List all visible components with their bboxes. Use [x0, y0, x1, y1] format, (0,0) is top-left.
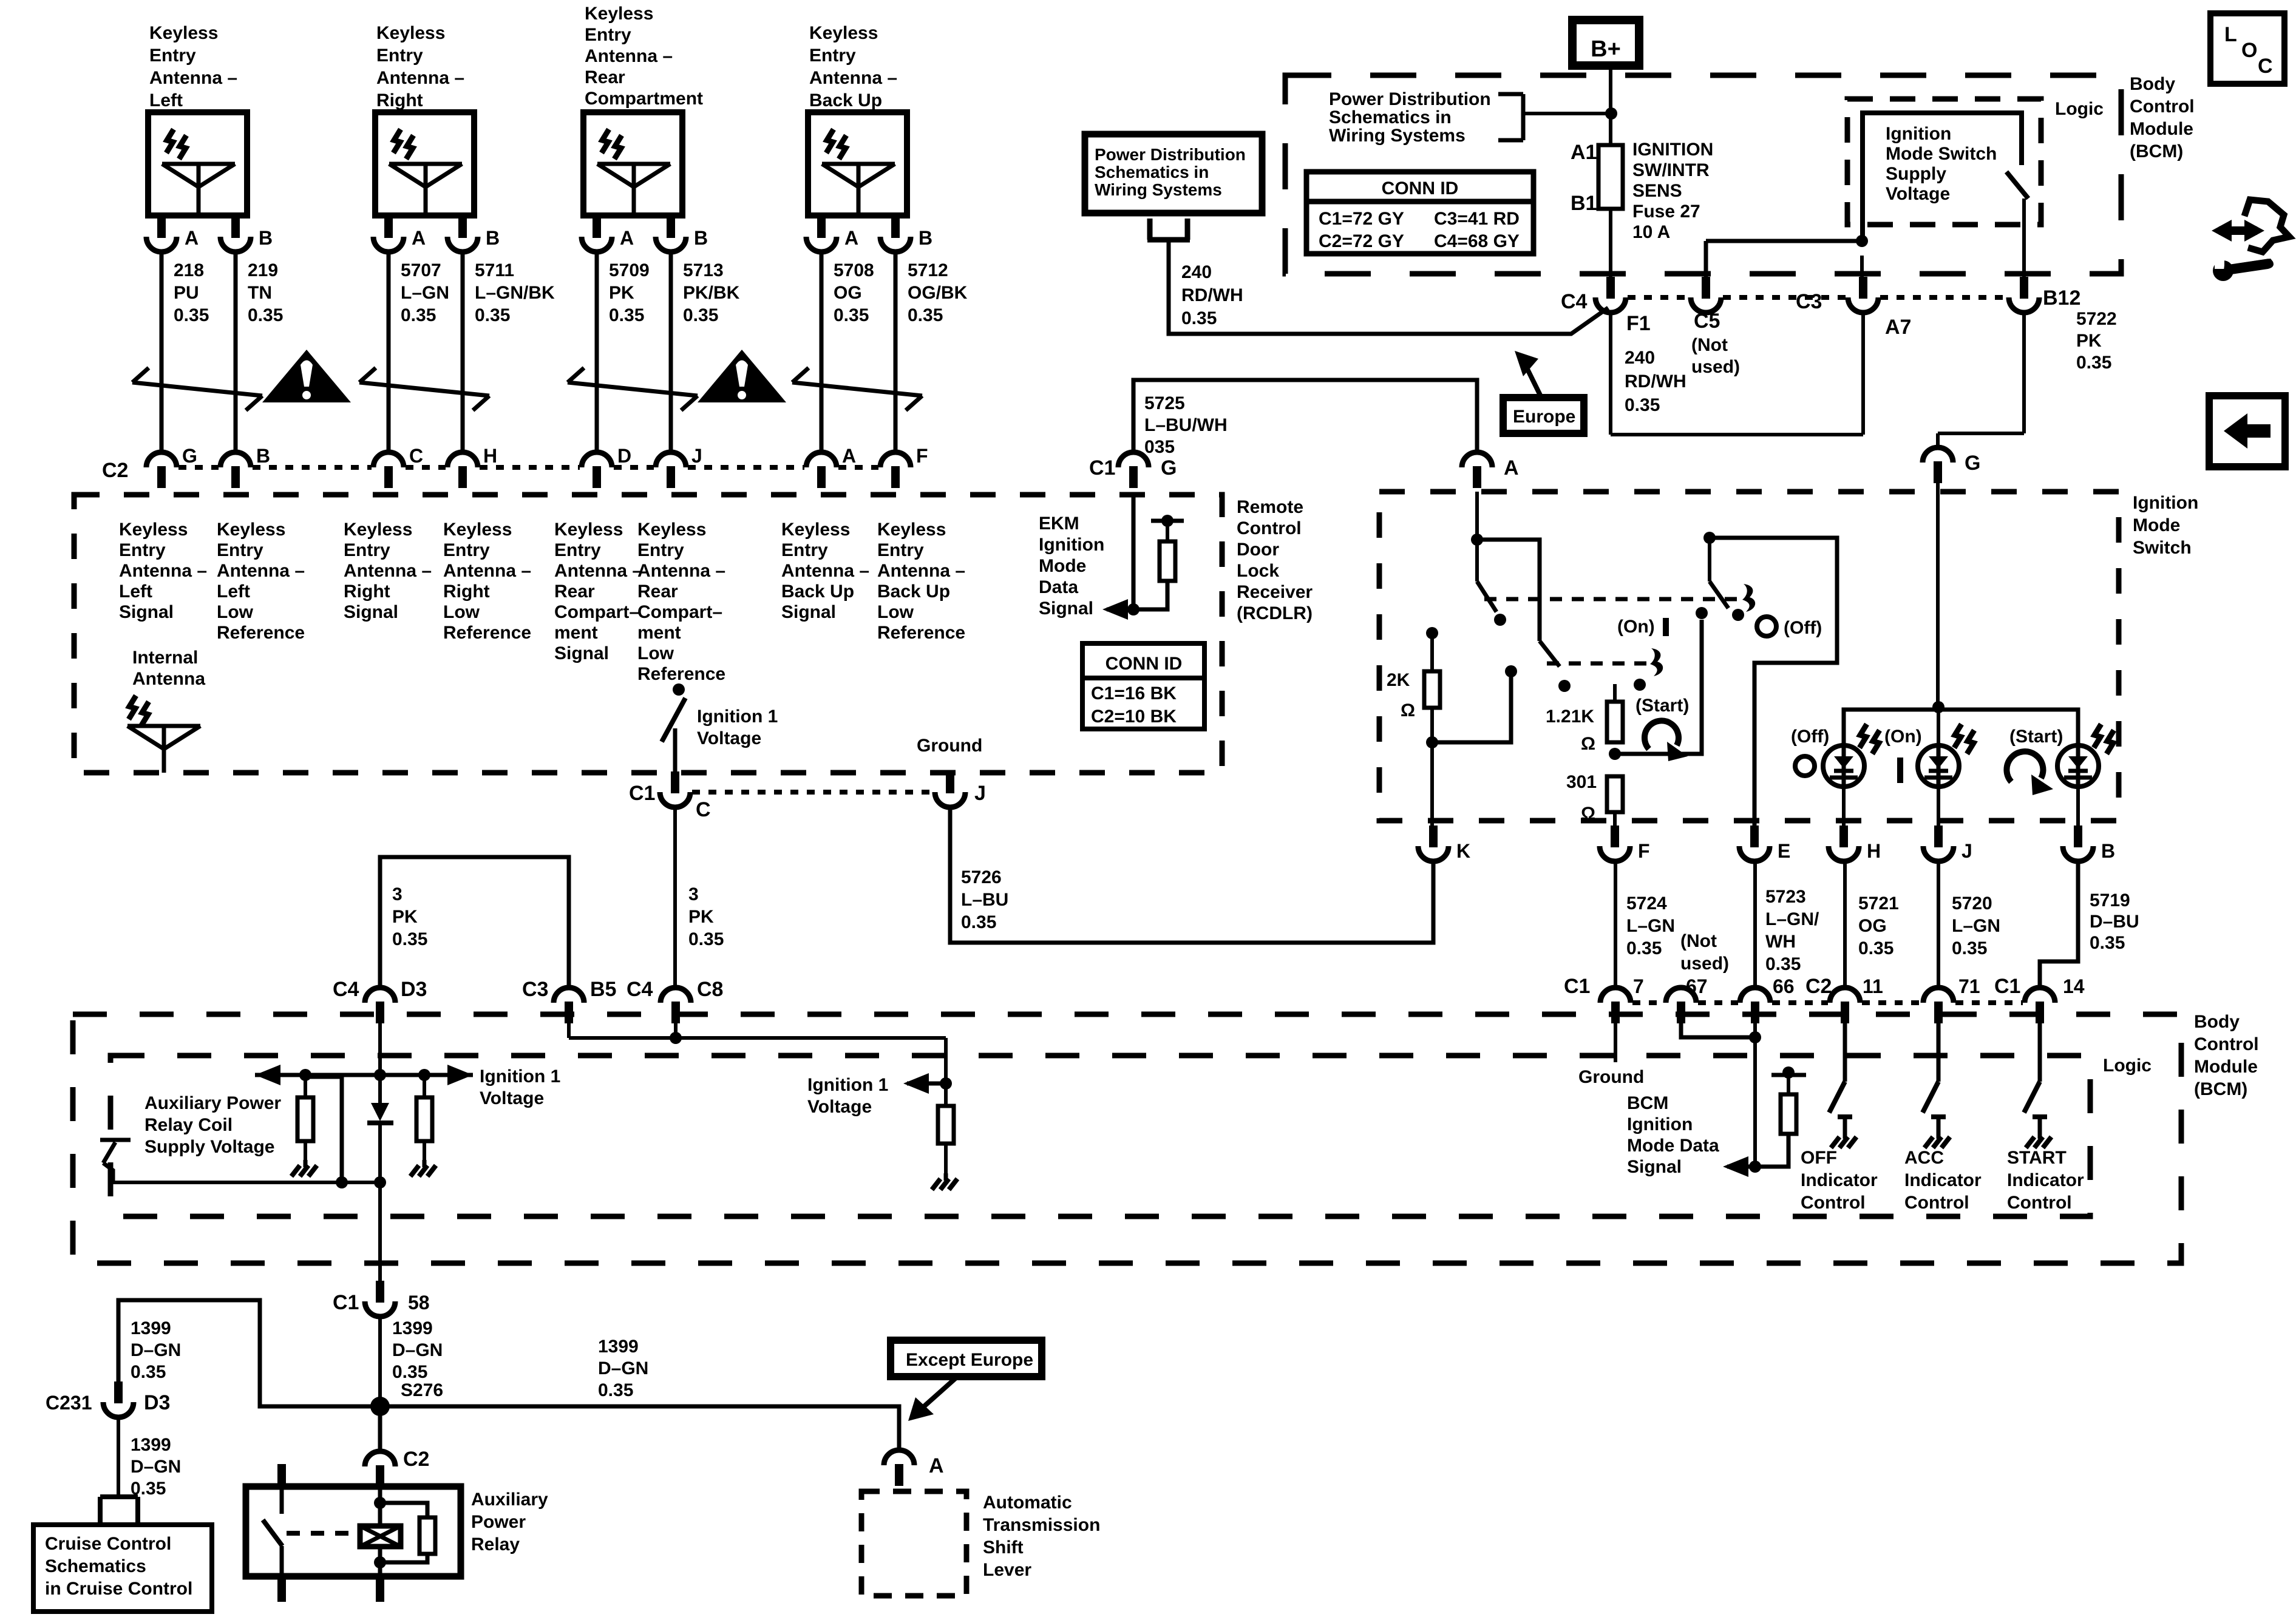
- RCDLR pin function text 5: [554, 520, 642, 663]
- svg-text:Ignition: Ignition: [2133, 493, 2198, 513]
- svg-text:CONN ID: CONN ID: [1382, 178, 1459, 198]
- svg-text:J: J: [1961, 840, 1972, 862]
- relay mechanical link: [287, 1531, 358, 1536]
- svg-text:J: J: [974, 782, 986, 805]
- label C2 (row2): [1805, 975, 1832, 998]
- ground middle: [932, 1173, 957, 1190]
- auxiliary power relay coil supply voltage text: [144, 1093, 281, 1157]
- svg-text:0.35: 0.35: [1765, 954, 1801, 974]
- svg-text:Body: Body: [2130, 74, 2175, 94]
- svg-text:Entry: Entry: [585, 25, 631, 45]
- svg-text:10 A: 10 A: [1632, 222, 1670, 242]
- IMS pin J: [1923, 825, 1972, 862]
- svg-text:Europe: Europe: [1513, 407, 1575, 427]
- label C2 (RCDLR connector): [102, 459, 128, 482]
- connector A (shift lever): [884, 1450, 944, 1486]
- svg-text:L–GN/: L–GN/: [1765, 909, 1819, 929]
- wire 5719 D-BU: [2040, 861, 2139, 988]
- connector pin B of antenna 4: [880, 216, 932, 252]
- pull-up resistor left: [297, 1075, 313, 1160]
- svg-text:0.35: 0.35: [609, 305, 644, 325]
- svg-text:0.35: 0.35: [961, 912, 996, 932]
- BCM ignition mode data signal text: [1627, 1093, 1719, 1177]
- svg-text:L: L: [2224, 23, 2237, 46]
- svg-text:A: A: [620, 227, 634, 249]
- ACC indicator control text: [1904, 1148, 1982, 1213]
- svg-text:C5: C5: [1694, 310, 1720, 333]
- ignition 1 voltage arrow (middle): [807, 1073, 952, 1117]
- BCM upper dashed box: [1285, 75, 2121, 274]
- svg-text:Antenna –: Antenna –: [877, 561, 965, 581]
- svg-text:Rear: Rear: [585, 67, 625, 87]
- not-used 67 link: [1681, 1020, 1761, 1043]
- warning triangle 1: [262, 350, 351, 402]
- svg-text:Rear: Rear: [554, 581, 595, 602]
- keyless entry antenna 4 label: [809, 23, 897, 110]
- svg-text:Ignition: Ignition: [1627, 1114, 1693, 1134]
- svg-text:0.35: 0.35: [683, 305, 718, 325]
- svg-text:Keyless: Keyless: [344, 520, 412, 540]
- back arrow box: [2209, 396, 2285, 467]
- svg-text:Keyless: Keyless: [119, 520, 188, 540]
- svg-text:H: H: [483, 445, 497, 467]
- row2 dotted line: [1632, 1000, 1664, 1005]
- wire 5722 PK (B12 to G): [1938, 309, 2117, 448]
- svg-text:(Off): (Off): [1784, 618, 1822, 638]
- wire main to C1-58: [378, 1182, 382, 1287]
- svg-text:RD/WH: RD/WH: [1181, 285, 1243, 305]
- BCM pin B5: [554, 978, 616, 1023]
- svg-text:Supply: Supply: [1886, 164, 1946, 184]
- svg-text:3: 3: [688, 884, 699, 904]
- start position text: [1635, 696, 1689, 716]
- start rotate arrow: [1645, 720, 1688, 761]
- label C1 (EKM connector): [1089, 456, 1115, 480]
- svg-text:Entry: Entry: [443, 540, 490, 560]
- EKM data wire with arrow: [1102, 495, 1140, 620]
- svg-text:(BCM): (BCM): [2130, 141, 2183, 161]
- svg-text:Entry: Entry: [781, 540, 828, 560]
- ground left: [291, 1160, 317, 1176]
- svg-text:Compartment: Compartment: [585, 89, 703, 109]
- RCDLR pin function text 1: [119, 520, 207, 622]
- svg-text:Ground: Ground: [917, 736, 982, 756]
- ignition 1 voltage text (BCM): [480, 1066, 560, 1108]
- connector D3 (C231): [103, 1381, 170, 1417]
- splice S276: [370, 1380, 443, 1416]
- svg-text:Left: Left: [149, 90, 183, 110]
- switch 1 (run contact): [1477, 540, 1506, 626]
- svg-text:B+: B+: [1591, 36, 1621, 62]
- svg-text:0.35: 0.35: [392, 929, 427, 949]
- svg-text:Shift: Shift: [983, 1537, 1024, 1558]
- svg-text:Indicator: Indicator: [2007, 1170, 2084, 1190]
- IMS pin A: [1462, 452, 1519, 488]
- svg-text:Control: Control: [1904, 1193, 1969, 1213]
- upper row dotted line 3: [1880, 295, 2007, 300]
- svg-text:SW/INTR: SW/INTR: [1632, 160, 1710, 180]
- svg-text:C3: C3: [522, 978, 548, 1001]
- wire 219 TN: [236, 252, 283, 453]
- svg-text:Right: Right: [376, 90, 423, 110]
- svg-text:C2: C2: [1805, 975, 1832, 998]
- connector row dotted line: [838, 465, 878, 470]
- svg-text:Low: Low: [877, 602, 914, 622]
- wire 301 to F: [1613, 812, 1617, 835]
- svg-text:Lever: Lever: [983, 1560, 1031, 1580]
- wire 1399 D-GN (to cruise): [118, 1417, 181, 1499]
- auxiliary power relay box: [246, 1486, 461, 1576]
- svg-text:D3: D3: [401, 978, 427, 1001]
- row2 dotted line: [1862, 1000, 1921, 1005]
- IMS pin K: [1418, 825, 1470, 862]
- svg-text:Signal: Signal: [1039, 598, 1093, 619]
- connector C2 (relay): [365, 1451, 395, 1487]
- svg-text:Antenna –: Antenna –: [344, 561, 432, 581]
- svg-text:0.35: 0.35: [1952, 938, 1987, 958]
- RCDLR pin function text 4: [443, 520, 531, 643]
- connector row dotted line: [178, 465, 219, 470]
- RCDLR pin C: [660, 771, 711, 821]
- cruise control reference box: [33, 1525, 212, 1612]
- svg-text:A: A: [185, 227, 199, 249]
- svg-text:1399: 1399: [598, 1337, 639, 1357]
- RCDLR CONN ID table: [1082, 643, 1204, 729]
- svg-text:0.35: 0.35: [598, 1380, 633, 1400]
- svg-text:14: 14: [2063, 975, 2085, 997]
- svg-text:(On): (On): [1617, 617, 1655, 637]
- svg-text:Transmission: Transmission: [983, 1515, 1100, 1535]
- svg-text:B: B: [486, 227, 500, 249]
- connector C5 not used: [1691, 241, 1740, 377]
- svg-text:7: 7: [1633, 975, 1644, 997]
- svg-text:Wiring Systems: Wiring Systems: [1095, 180, 1222, 199]
- RCDLR pin G: [146, 445, 197, 488]
- svg-text:0.35: 0.35: [2076, 353, 2111, 373]
- RCDLR pin F: [880, 445, 928, 488]
- mechanical link 1: [1484, 584, 1755, 612]
- svg-text:B: B: [694, 227, 708, 249]
- svg-text:L–GN: L–GN: [1952, 916, 2000, 936]
- wire 5720 L-GN: [1938, 861, 2000, 988]
- svg-text:Signal: Signal: [119, 602, 174, 622]
- svg-text:Auxiliary: Auxiliary: [471, 1490, 548, 1510]
- svg-text:used): used): [1680, 954, 1729, 974]
- svg-text:Remote: Remote: [1237, 497, 1303, 517]
- IMS pin F: [1600, 825, 1650, 862]
- svg-text:TN: TN: [248, 283, 272, 303]
- except europe callout: [891, 1340, 1042, 1421]
- ignition 1 voltage rail with arrows: [255, 1065, 473, 1085]
- LED off/H: [1823, 724, 1880, 835]
- svg-text:Mode Switch: Mode Switch: [1886, 144, 1997, 164]
- svg-text:ment: ment: [637, 623, 681, 643]
- svg-text:(Start): (Start): [1635, 696, 1689, 716]
- europe callout: [1503, 351, 1584, 433]
- wire 5711 L–GN/BK: [463, 252, 555, 453]
- BCM pin F1: [1595, 277, 1651, 335]
- svg-text:Power Distribution: Power Distribution: [1095, 145, 1246, 164]
- BCM pin 71: [1923, 975, 1980, 1023]
- svg-text:(Start): (Start): [2009, 727, 2063, 747]
- svg-text:C2: C2: [403, 1448, 429, 1471]
- svg-text:C4: C4: [627, 978, 653, 1001]
- wire C5 to A7 node: [1706, 235, 1868, 247]
- switch 3 feed: [1703, 532, 1716, 581]
- svg-text:C8: C8: [697, 978, 723, 1001]
- svg-text:Mode: Mode: [1039, 556, 1086, 576]
- connector pin A of antenna 2: [373, 216, 426, 252]
- svg-text:Ignition 1: Ignition 1: [807, 1075, 888, 1095]
- svg-text:5707: 5707: [401, 260, 441, 280]
- fuse 27: [1571, 140, 1713, 242]
- svg-text:Antenna –: Antenna –: [119, 561, 207, 581]
- connector pin B of antenna 2: [447, 216, 500, 252]
- svg-text:C1: C1: [1564, 975, 1590, 998]
- svg-text:B5: B5: [590, 978, 616, 1001]
- svg-text:Keyless: Keyless: [376, 23, 445, 43]
- ignition mode switch dashed box: [1379, 492, 2119, 821]
- svg-text:L–BU: L–BU: [961, 890, 1008, 910]
- relay coil wiring: [374, 1481, 435, 1602]
- svg-text:G: G: [1161, 456, 1177, 480]
- svg-text:C1: C1: [629, 782, 655, 805]
- connector row dotted line: [480, 465, 580, 470]
- LED start/B: [2057, 724, 2114, 835]
- svg-text:Ω: Ω: [1581, 804, 1595, 824]
- RCDLR pin J (ground): [935, 771, 986, 807]
- START indicator switch: [2024, 1020, 2051, 1148]
- svg-text:Voltage: Voltage: [1886, 184, 1950, 204]
- label C4 (F1): [1561, 290, 1588, 313]
- svg-text:Signal: Signal: [1627, 1157, 1682, 1177]
- svg-text:Entry: Entry: [149, 46, 196, 66]
- RCDLR pin function text 7: [781, 520, 869, 622]
- BCM pin 66: [1740, 975, 1795, 1023]
- svg-text:Compart–: Compart–: [637, 602, 722, 622]
- svg-text:Antenna –: Antenna –: [809, 68, 897, 88]
- svg-text:Low: Low: [443, 602, 480, 622]
- twisted pair symbol 2: [359, 368, 489, 410]
- svg-text:A: A: [844, 227, 858, 249]
- svg-text:5711: 5711: [475, 260, 514, 280]
- svg-text:C: C: [2258, 55, 2273, 78]
- svg-text:(Off): (Off): [1791, 727, 1829, 747]
- svg-text:Entry: Entry: [809, 46, 856, 66]
- svg-text:EKM: EKM: [1039, 514, 1079, 534]
- svg-text:A: A: [929, 1454, 944, 1477]
- svg-text:Entry: Entry: [554, 540, 601, 560]
- svg-text:OG: OG: [1858, 916, 1887, 936]
- svg-text:1399: 1399: [131, 1435, 171, 1455]
- BCM pin A7: [1848, 277, 1911, 339]
- svg-text:(BCM): (BCM): [2194, 1079, 2247, 1099]
- svg-text:Receiver: Receiver: [1237, 582, 1313, 602]
- svg-text:0.35: 0.35: [908, 305, 943, 325]
- svg-text:Relay Coil: Relay Coil: [144, 1115, 233, 1135]
- svg-text:OG/BK: OG/BK: [908, 283, 968, 303]
- EKM ignition mode data signal text: [1039, 514, 1104, 619]
- keyless entry antenna 3 label: [585, 4, 703, 109]
- auxiliary power relay text: [471, 1490, 548, 1554]
- svg-text:218: 218: [174, 260, 204, 280]
- wire 5723 L-GN/WH: [1755, 861, 1819, 988]
- svg-text:D–GN: D–GN: [392, 1340, 443, 1360]
- label C4 (D3): [333, 978, 359, 1001]
- svg-text:C1: C1: [1994, 975, 2020, 998]
- aux relay supply wire: [113, 1077, 380, 1188]
- svg-text:L–GN: L–GN: [1626, 916, 1675, 936]
- svg-text:Control: Control: [1801, 1193, 1866, 1213]
- svg-text:Entry: Entry: [877, 540, 924, 560]
- logic label (upper): [2055, 99, 2104, 119]
- svg-text:Switch: Switch: [2133, 538, 2192, 558]
- blocking diode: [367, 1075, 393, 1182]
- svg-text:Supply Voltage: Supply Voltage: [144, 1137, 274, 1157]
- svg-text:D: D: [617, 445, 631, 467]
- BCM pin 11: [1830, 975, 1883, 1023]
- RCDLR pin function text 8: [877, 520, 965, 643]
- svg-text:Control: Control: [1237, 518, 1302, 538]
- wire G to LEDs: [1932, 475, 1944, 745]
- svg-text:C4=68 GY: C4=68 GY: [1434, 231, 1520, 251]
- warning triangle 2: [698, 350, 786, 402]
- OFF indicator switch: [1829, 1020, 1856, 1148]
- internal antenna label: [132, 648, 205, 689]
- svg-text:BCM: BCM: [1627, 1093, 1668, 1113]
- wire 218 PU: [161, 252, 209, 453]
- OFF indicator control text: [1801, 1148, 1878, 1213]
- connector pin A of antenna 4: [806, 216, 858, 252]
- svg-text:Control: Control: [2194, 1034, 2259, 1054]
- svg-text:C3=41 RD: C3=41 RD: [1434, 209, 1520, 229]
- off-page fork (power dist): [1147, 219, 1190, 261]
- resistor 2K: [1387, 627, 1440, 748]
- svg-text:240: 240: [1181, 262, 1212, 282]
- svg-text:Antenna –: Antenna –: [554, 561, 642, 581]
- svg-text:5713: 5713: [683, 260, 724, 280]
- row2 dotted line: [1772, 1000, 1828, 1005]
- svg-text:Left: Left: [217, 581, 250, 602]
- svg-text:Ω: Ω: [1581, 734, 1595, 754]
- label C3 (B5): [522, 978, 548, 1001]
- svg-text:0.35: 0.35: [834, 305, 869, 325]
- svg-text:Signal: Signal: [554, 643, 609, 663]
- svg-text:Antenna: Antenna: [132, 669, 205, 689]
- svg-text:Entry: Entry: [119, 540, 166, 560]
- svg-text:Ignition: Ignition: [1039, 535, 1104, 555]
- svg-text:1.21K: 1.21K: [1546, 707, 1594, 727]
- svg-text:Door: Door: [1237, 540, 1279, 560]
- wire B5/C8 to logic: [569, 1020, 946, 1083]
- svg-text:66: 66: [1773, 975, 1795, 997]
- connector row dotted line: [253, 465, 372, 470]
- switch 3 blade: [1710, 581, 1744, 621]
- svg-text:0.35: 0.35: [174, 305, 209, 325]
- svg-text:A: A: [412, 227, 426, 249]
- ignition 1 voltage text (RCDLR): [697, 707, 778, 748]
- off circle (indicator): [1791, 727, 1829, 776]
- svg-text:OG: OG: [834, 283, 862, 303]
- svg-text:Logic: Logic: [2055, 99, 2104, 119]
- svg-text:B: B: [256, 445, 270, 467]
- B+ power symbol: [1572, 20, 1639, 66]
- svg-text:Antenna –: Antenna –: [585, 46, 673, 66]
- ignition mode switch supply voltage box: [1863, 113, 2022, 241]
- start rotate arrow 2: [2006, 751, 2053, 795]
- ground label (RCDLR): [917, 736, 982, 756]
- label C2 (relay): [403, 1448, 429, 1471]
- wire fuse to C4: [1609, 209, 1612, 278]
- svg-text:Schematics in: Schematics in: [1095, 163, 1209, 181]
- svg-text:Except Europe: Except Europe: [906, 1350, 1033, 1370]
- svg-text:Antenna –: Antenna –: [637, 561, 725, 581]
- svg-text:C: C: [409, 445, 423, 467]
- svg-text:PK: PK: [2076, 331, 2102, 351]
- label C1 (RCDLR bottom): [629, 782, 655, 805]
- svg-text:Schematics: Schematics: [45, 1556, 146, 1576]
- RCDLR dashed box (Remote Control Door Lock Receiver): [74, 495, 1222, 773]
- BCM pin 7: [1600, 975, 1644, 1023]
- svg-text:Auxiliary Power: Auxiliary Power: [144, 1093, 281, 1113]
- svg-text:71: 71: [1958, 975, 1980, 997]
- svg-text:Rear: Rear: [637, 581, 678, 602]
- switch wire from A: [1471, 492, 1483, 546]
- svg-text:Keyless: Keyless: [585, 4, 653, 24]
- BCM pin 14: [2025, 975, 2085, 1023]
- CONN ID table (BCM): [1306, 172, 1533, 254]
- svg-text:Low: Low: [637, 643, 674, 663]
- body control module text (upper): [2130, 74, 2195, 161]
- svg-text:C3: C3: [1796, 290, 1822, 313]
- svg-text:Indicator: Indicator: [1801, 1170, 1878, 1190]
- switch 2 blade: [1540, 641, 1646, 692]
- label C1 (row2 right): [1994, 975, 2020, 998]
- svg-text:0.35: 0.35: [401, 305, 436, 325]
- RCDLR pin B: [220, 445, 270, 488]
- RCDLR pin J: [656, 445, 702, 488]
- svg-text:5709: 5709: [609, 260, 650, 280]
- svg-text:Antenna –: Antenna –: [781, 561, 869, 581]
- svg-text:Fuse 27: Fuse 27: [1632, 202, 1700, 222]
- svg-text:in Cruise Control: in Cruise Control: [45, 1579, 192, 1599]
- svg-text:5722: 5722: [2076, 309, 2117, 329]
- svg-text:5712: 5712: [908, 260, 948, 280]
- svg-text:Signal: Signal: [781, 602, 836, 622]
- relay coil: [360, 1526, 401, 1547]
- ignition 1 voltage switch (RCDLR): [662, 683, 685, 773]
- svg-text:Keyless: Keyless: [781, 520, 850, 540]
- svg-text:Cruise Control: Cruise Control: [45, 1534, 171, 1554]
- wire B+ to fuse: [1605, 66, 1617, 145]
- off circle (switch): [1757, 617, 1822, 638]
- svg-text:PK: PK: [609, 283, 634, 303]
- wire 240 RD/WH (europe feed): [1169, 261, 1608, 334]
- svg-text:ACC: ACC: [1904, 1148, 1944, 1168]
- svg-text:219: 219: [248, 260, 278, 280]
- svg-text:F: F: [1638, 840, 1650, 862]
- svg-text:Lock: Lock: [1237, 561, 1279, 581]
- IMS pin H: [1829, 825, 1881, 862]
- svg-text:Indicator: Indicator: [1904, 1170, 1982, 1190]
- svg-text:D–GN: D–GN: [131, 1340, 181, 1360]
- BCM pin 67 (not used): [1666, 931, 1729, 1023]
- svg-text:0.35: 0.35: [475, 305, 510, 325]
- svg-text:Keyless: Keyless: [554, 520, 623, 540]
- wire 2K to K: [1430, 742, 1434, 835]
- logic dashed box (upper): [1847, 99, 2041, 225]
- svg-text:5724: 5724: [1626, 893, 1667, 914]
